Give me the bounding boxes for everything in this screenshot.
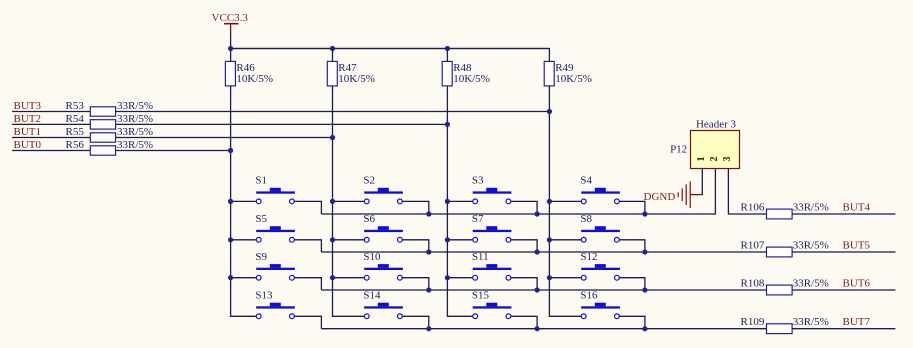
svg-text:BUT1: BUT1	[14, 126, 42, 138]
svg-text:S7: S7	[472, 213, 484, 225]
svg-text:R106: R106	[741, 201, 765, 213]
svg-text:2: 2	[709, 157, 720, 162]
svg-text:S11: S11	[472, 251, 489, 263]
svg-text:S16: S16	[580, 290, 598, 302]
svg-text:1: 1	[696, 157, 707, 162]
svg-text:10K/5%: 10K/5%	[555, 73, 592, 85]
svg-text:S2: S2	[363, 175, 375, 187]
svg-text:P12: P12	[670, 144, 687, 156]
svg-text:S4: S4	[580, 175, 592, 187]
svg-text:S3: S3	[472, 175, 484, 187]
svg-text:R53: R53	[66, 100, 85, 112]
svg-text:S1: S1	[255, 175, 267, 187]
svg-text:S15: S15	[472, 290, 490, 302]
svg-text:33R/5%: 33R/5%	[793, 277, 829, 289]
svg-text:BUT3: BUT3	[14, 100, 42, 112]
svg-text:S8: S8	[580, 213, 592, 225]
svg-text:R56: R56	[66, 139, 85, 151]
svg-text:33R/5%: 33R/5%	[117, 100, 153, 112]
svg-text:S10: S10	[363, 251, 381, 263]
svg-text:33R/5%: 33R/5%	[793, 201, 829, 213]
svg-text:3: 3	[722, 157, 733, 162]
svg-text:R54: R54	[66, 113, 85, 125]
svg-text:33R/5%: 33R/5%	[793, 239, 829, 251]
svg-text:BUT5: BUT5	[843, 239, 871, 251]
svg-text:S12: S12	[580, 251, 597, 263]
svg-text:10K/5%: 10K/5%	[338, 73, 375, 85]
svg-text:10K/5%: 10K/5%	[453, 73, 490, 85]
svg-text:S5: S5	[255, 213, 267, 225]
svg-text:BUT4: BUT4	[843, 201, 871, 213]
svg-text:Header 3: Header 3	[696, 118, 737, 130]
svg-text:VCC3.3: VCC3.3	[212, 12, 249, 24]
svg-text:R107: R107	[741, 239, 765, 251]
svg-text:S9: S9	[255, 251, 267, 263]
svg-text:R108: R108	[741, 277, 765, 289]
svg-text:S6: S6	[363, 213, 375, 225]
svg-text:33R/5%: 33R/5%	[117, 139, 153, 151]
svg-text:S13: S13	[255, 290, 273, 302]
svg-text:BUT6: BUT6	[843, 277, 871, 289]
svg-text:33R/5%: 33R/5%	[117, 113, 153, 125]
svg-text:33R/5%: 33R/5%	[117, 126, 153, 138]
svg-text:R109: R109	[741, 316, 765, 328]
svg-text:10K/5%: 10K/5%	[236, 73, 273, 85]
svg-text:S14: S14	[363, 290, 381, 302]
svg-text:R55: R55	[66, 126, 85, 138]
svg-text:BUT0: BUT0	[14, 139, 42, 151]
svg-text:33R/5%: 33R/5%	[793, 316, 829, 328]
svg-text:BUT7: BUT7	[843, 316, 871, 328]
svg-text:DGND: DGND	[644, 191, 676, 203]
svg-text:BUT2: BUT2	[14, 113, 42, 125]
